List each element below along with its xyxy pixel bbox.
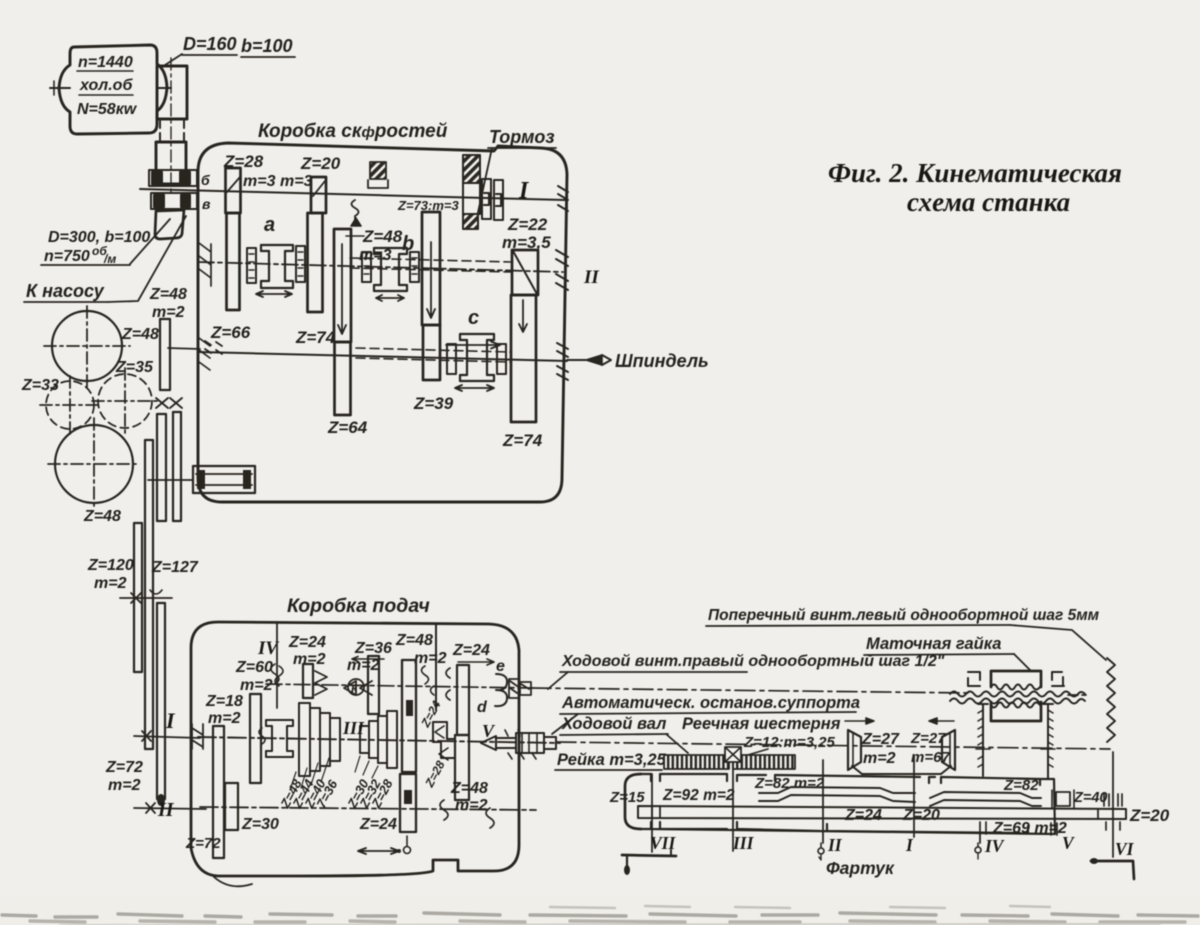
svg-text:Z=82 m=2: Z=82 m=2 [754,775,825,792]
svg-text:Z=92 m=2: Z=92 m=2 [662,787,735,804]
sliding cluster b flank right [410,252,419,282]
svg-text:Z=28: Z=28 [422,758,448,790]
svg-text:m=2: m=2 [208,710,241,727]
svg-text:N=58кw: N=58кw [77,101,138,118]
pulley centerline [170,58,172,196]
svg-text:Автоматическ. останов.суппорта: Автоматическ. останов.суппорта [561,694,860,712]
apron outline [625,774,641,829]
svg-text:Z=72: Z=72 [185,835,221,852]
label Ходовой вал [561,715,666,733]
svg-text:b=100: b=100 [241,36,293,56]
label Маточная гайка [866,635,1001,653]
svg-text:схема станка: схема станка [907,187,1070,217]
svg-text:Z=66: Z=66 [210,323,251,342]
gear Z=39 [423,325,440,380]
svg-text:Реечная шестерня: Реечная шестерня [682,715,841,733]
shaft I line [140,189,565,200]
roman I [165,708,176,733]
speed box outline [198,143,567,502]
roman IV label [257,638,279,659]
sliding cluster b [374,248,407,291]
svg-text:Поперечный винт.левый однообор: Поперечный винт.левый однообортной шаг 5… [708,607,1100,624]
svg-text:m=2: m=2 [414,650,447,667]
svg-text:I: I [518,178,530,204]
svg-text:Z=120: Z=120 [87,557,134,574]
svg-text:IV: IV [257,638,279,659]
cone set 1 [299,703,310,776]
svg-text:m=2: m=2 [293,651,326,668]
sliding cluster a flank right [296,246,305,282]
mesh cross [156,398,182,408]
svg-text:Тормоз: Тормоз [489,127,555,147]
svg-text:m=2: m=2 [240,677,273,694]
gear Z=64 [335,342,351,415]
e clutch lobes [495,674,507,706]
svg-text:Z=48: Z=48 [149,286,187,303]
leader lines cone1 [290,758,329,790]
svg-text:Z=24: Z=24 [452,642,490,659]
label К насосу [26,281,105,301]
feed box outline [191,622,519,876]
pulley D=300 driven body [155,210,184,239]
svg-text:Z=12:m=3,25: Z=12:m=3,25 [743,734,836,751]
sliding cluster c flank right [497,344,506,374]
shaft I feed left stub [134,731,200,741]
long feed rod bar [638,806,1126,819]
shift arrow a [256,291,292,297]
sliding cluster c [460,334,494,381]
label Ходовой винт [561,653,945,670]
gear circle Z=33 [40,376,100,434]
label Z=60 m=2 [235,659,273,694]
title Коробка подач [287,595,430,617]
split nut upper half [991,671,1041,687]
clutch on shaft I [482,179,491,219]
svg-text:m=2: m=2 [94,575,127,592]
svg-text:Z=82: Z=82 [1003,777,1039,794]
svg-text:хол.об: хол.об [79,77,133,94]
belt dashes [159,121,161,141]
svg-text:II: II [583,267,599,288]
gear Z=30 [225,783,238,830]
svg-text:m=2: m=2 [108,777,141,794]
cross screw zigzag [1107,658,1115,742]
svg-text:VI: VI [1115,839,1135,859]
spindle shaft line [198,352,567,361]
label Z=48 m=2 low right [450,780,488,814]
rotated small labels [418,698,448,790]
gear circle Z=48 top [44,306,130,388]
svg-text:m=3: m=3 [359,247,392,264]
svg-text:Z=64: Z=64 [327,418,368,437]
spindle output arrow [567,359,586,361]
labels Z=72 m=2 left [105,759,143,794]
svg-text:Z=48: Z=48 [450,780,488,797]
svg-text:n=1440: n=1440 [78,54,133,71]
roman II [157,799,175,821]
svg-text:Z=24: Z=24 [418,698,444,730]
svg-text:m=67: m=67 [911,749,950,766]
label Поперечный винт [708,607,1100,624]
label D=300 b=100 n=750 [44,229,150,266]
S marks right of Z48 [422,666,435,695]
label Шпиндель [615,351,709,371]
nut threads wavy [950,692,1085,697]
shaft II spline dashes [350,258,512,272]
svg-text:II: II [827,835,843,855]
svg-text:К насосу: К насосу [26,281,105,301]
gear Z=74 (on II under Z20) [308,213,323,312]
partition rod [435,625,437,710]
label Z=28 m=3 [223,152,341,190]
svg-text:c: c [468,307,479,329]
chain gear Z=127 long [145,440,153,749]
svg-text:m=2: m=2 [455,797,488,814]
svg-text:Z=69 m=2: Z=69 m=2 [992,820,1067,837]
sliding cluster a [261,245,293,288]
svg-text:Z=30: Z=30 [241,816,279,833]
shaft II line [198,262,563,272]
chain idler arm [157,603,165,799]
svg-text:I: I [165,708,176,733]
svg-text:Z=15: Z=15 [609,789,645,806]
shaft III main line [198,737,560,743]
svg-text:Z=24: Z=24 [288,634,326,651]
sleeve profile left [759,787,915,793]
motor text n=1440 хол.об N=58kw [77,54,138,118]
svg-text:III: III [732,833,755,853]
label Z=12 m=3,25 [743,734,836,751]
left bearing feed box [192,724,203,749]
labels Z=120 m=2 / Z=127 [87,557,199,592]
fork S symbols [352,200,359,220]
gear Z=24 lower mid [400,774,416,832]
label D=160 b=100 [183,34,293,56]
bottom scan noise band [2,906,1198,925]
svg-text:Z=20: Z=20 [902,807,940,824]
bottom-left bearing block [193,466,255,493]
pump gear Z=48 m=2 rect [160,319,170,390]
step block V [433,722,455,758]
gear Z=20 [311,177,326,213]
svg-text:Z=27: Z=27 [910,730,946,747]
label Z=24 m=2 left [288,634,326,668]
svg-text:D=160: D=160 [183,34,237,54]
gear Z=74 right column [511,295,536,422]
bearing right edge spindle [557,343,568,380]
bevel arrows [845,718,874,724]
sliding cluster a flank left [247,248,256,283]
label Z=48 m=2 (pump gear) [149,286,187,321]
chain gear rect A [157,414,166,521]
oil tail curve [214,877,252,886]
pump shaft line [168,348,200,349]
svg-text:Z=48: Z=48 [121,326,159,343]
label Z=72 [185,835,221,852]
bearing hatch left edge shaft II [198,240,211,286]
svg-text:Коробка скфростей: Коробка скфростей [258,121,448,142]
label Z=24 right [452,642,490,659]
gear Z=40 [1056,792,1070,806]
label Автоматическ останов [561,694,860,712]
arrow on spindle spline [446,342,500,349]
sliding cluster b flank left [362,252,371,282]
roman II right [583,267,599,288]
bearing hatch left edge spindle [199,338,210,370]
nut side brackets [968,672,980,686]
bevel gear Z=27 left [848,730,861,770]
svg-text:б: б [201,172,210,188]
nut support columns [983,704,1048,779]
label c [468,307,479,329]
title Коробка скоростей [258,121,448,142]
svg-text:Z=60: Z=60 [235,659,273,676]
gear Z=18 column [213,726,224,858]
svg-text:Z=127: Z=127 [151,559,199,576]
roman III [342,718,365,738]
k circle [348,679,364,695]
svg-text:Z=33: Z=33 [21,377,59,394]
shaft IV upper line [266,684,533,688]
leader to cross screw [1010,625,1106,660]
pulley D=160 (driving) [157,66,187,119]
svg-text:VII: VII [650,833,676,853]
svg-text:Z=74: Z=74 [295,328,336,347]
svg-text:Z=27: Z=27 [861,731,900,748]
teardrop pendant [406,836,408,846]
leader to pulley [162,54,182,67]
gear Z=28 [226,168,241,213]
feed rod centerline [556,742,1110,749]
rack bars [664,755,729,769]
svg-text:Z=24: Z=24 [359,816,397,833]
gear Z=48 tall column [402,660,416,772]
svg-text:m=2: m=2 [863,750,896,767]
shift arrow c [455,385,494,391]
svg-text:II: II [157,799,175,821]
svg-text:Z=35: Z=35 [115,359,154,376]
S marks lower [440,668,494,828]
svg-text:Фартук: Фартук [826,858,895,878]
gear Z=22 cone [512,250,538,295]
shaft II feed left stub [134,803,206,813]
bottom scan paper shade [0,897,1200,925]
bearing block upper on shaft I [149,170,197,186]
svg-text:Z=20: Z=20 [300,154,341,173]
split nut lower half [991,702,1041,721]
brake column [463,155,480,183]
svg-text:III: III [342,718,365,738]
svg-text:IV: IV [984,836,1005,856]
gear circle Z=35 [92,368,158,434]
cone1 rotated labels [277,776,341,811]
gear Z=24 on IV [303,664,313,698]
clutch H on shaft III [266,720,293,757]
pin symbol IV [977,843,979,847]
pin symbol II [820,843,822,848]
bottom shift arrow [358,848,399,854]
letters б в near входной [201,172,211,212]
svg-text:в: в [202,196,211,212]
svg-text:Z=74: Z=74 [502,431,543,450]
shaft II low line [200,807,536,810]
feed rod coupling [481,733,556,753]
svg-text:Маточная гайка: Маточная гайка [866,635,1001,653]
label Z=48 m=2 mid [395,632,447,667]
svg-text:Рейка m=3,25: Рейка m=3,25 [557,751,667,769]
svg-text:V: V [1062,833,1075,853]
figure title [828,158,1122,217]
motor M1 body [50,45,171,134]
label Реечная шестерня [682,715,841,733]
bevel labels [861,730,950,767]
bevel gear Z=27 right [942,730,955,770]
belt run lower block [156,142,186,184]
svg-text:/м: /м [103,252,116,266]
svg-text:Коробка подач: Коробка подач [287,595,430,617]
junction tick y=598 [120,590,172,603]
svg-text:Ходовой винт.правый однообортн: Ходовой винт.правый однообортный шаг 1/2… [561,653,945,670]
svg-text:Z=20: Z=20 [1129,806,1170,825]
roman numerals below apron [650,833,1135,859]
cone set 2 [360,726,369,753]
svg-text:I: I [905,835,914,855]
leader to driven pulley [130,219,170,264]
rack pinion Z=12 [725,747,741,762]
gear Z=36 column [368,656,379,714]
apron right edge [641,779,1055,834]
label Z=48 m=3 b [359,198,459,264]
label Фартук [826,858,895,878]
svg-text:e: e [496,658,505,675]
bearing right edge shaft I [558,186,568,211]
svg-text:Z=48: Z=48 [83,508,121,525]
sliding cluster c flank left [447,344,456,374]
gear Z=73 column [422,212,440,325]
top fork hatched pad [370,162,386,179]
svg-text:Z=48: Z=48 [362,227,403,246]
svg-text:m=3: m=3 [280,173,313,190]
svg-text:n=750: n=750 [44,248,90,265]
svg-text:a: a [264,214,275,236]
svg-text:Ходовой вал: Ходовой вал [561,715,666,733]
L bracket right [1091,861,1134,879]
spindle spline dashes [356,348,510,362]
gear Z=60 [250,694,261,783]
svg-text:Z=24: Z=24 [844,807,882,824]
svg-text:m=3: m=3 [243,173,276,190]
Z=69 ticks [980,822,1057,835]
roman I shaft [518,178,530,204]
L bracket left [622,855,676,856]
gear Z=24 right column [457,665,469,735]
chevron clutch left [315,671,327,695]
label Рейка [557,751,667,769]
roman V [482,721,496,741]
lead screw centerline [531,688,972,693]
lead screw clutch hatch [509,679,531,698]
label Z=36 m=2 [347,640,392,674]
bearing right edge shaft II [556,250,568,290]
verticals in apron [651,774,653,852]
label a [264,214,275,236]
bearing block lower on shaft I [151,193,197,209]
apron labels row [609,775,1170,837]
svg-text:Фиг. 2. Кинематическая: Фиг. 2. Кинематическая [828,158,1122,188]
label Z=22 m=3,5 [502,215,551,252]
svg-text:Z=39: Z=39 [413,394,454,413]
svg-text:Z=40: Z=40 [1073,790,1107,806]
arrow above Z36 [352,657,384,662]
bevel bottom bracket [852,766,951,774]
chain gear rect B [173,412,181,521]
sleeve profile right [930,792,1041,798]
gear Z=66 [227,213,240,310]
apron top edge segments [641,774,1040,785]
cone2 rotated labels [344,776,396,811]
svg-text:Z=72: Z=72 [105,759,143,776]
brake label Тормоз [489,127,555,147]
shift arrow b [376,295,404,301]
shifter rail IV [276,622,278,708]
svg-text:Шпиндель: Шпиндель [615,351,709,371]
gear Z=48b column [334,229,351,342]
svg-text:Z=48: Z=48 [395,632,433,649]
chain gear Z=120 [134,523,142,672]
gear circle Z=48 bottom [48,418,140,510]
svg-text:Z=36: Z=36 [354,640,392,657]
svg-text:Z=18: Z=18 [205,693,243,710]
svg-text:d: d [477,699,488,716]
shaft VI vertical [1112,752,1114,857]
gear Z=20 on VI ticks [1104,794,1122,806]
label Z=18 m=2 [205,693,243,727]
svg-text:Z=22: Z=22 [507,215,548,234]
leader К насосу [108,216,186,302]
chevron clutch mid [344,681,372,695]
